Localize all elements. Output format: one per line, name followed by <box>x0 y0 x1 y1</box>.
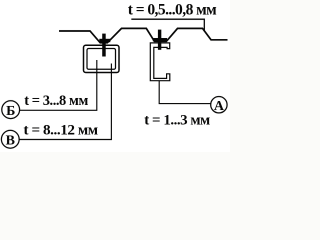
leader B (t=3...8) <box>20 60 97 110</box>
leader A (t=1...3) <box>159 81 211 104</box>
C-channel with lips <box>150 43 170 81</box>
circle A <box>211 97 227 113</box>
sheet (corrugated thin sheet profile) <box>59 28 228 42</box>
circle B <box>2 101 20 119</box>
svg-text:t = 1...3 мм: t = 1...3 мм <box>144 113 210 129</box>
circle V <box>1 130 19 148</box>
svg-text:t = 8...12 мм: t = 8...12 мм <box>23 121 97 138</box>
box tube outer wall <box>84 45 120 72</box>
svg-text:t = 0,5...0,8 мм: t = 0,5...0,8 мм <box>128 1 217 18</box>
weld crossbar left <box>99 39 110 42</box>
leader for top label <box>131 19 204 31</box>
svg-text:А: А <box>214 99 225 114</box>
svg-text:Б: Б <box>6 104 15 119</box>
weld nugget right (vertical bar) <box>158 30 161 50</box>
box tube inner wall <box>87 48 116 69</box>
svg-text:t = 3...8 мм: t = 3...8 мм <box>24 93 88 109</box>
svg-text:В: В <box>6 134 15 149</box>
paper background <box>0 0 230 152</box>
leader V (t=8...12) <box>19 63 111 139</box>
weld crossbar right <box>153 38 167 41</box>
weld nugget left (vertical bar) <box>102 34 106 57</box>
